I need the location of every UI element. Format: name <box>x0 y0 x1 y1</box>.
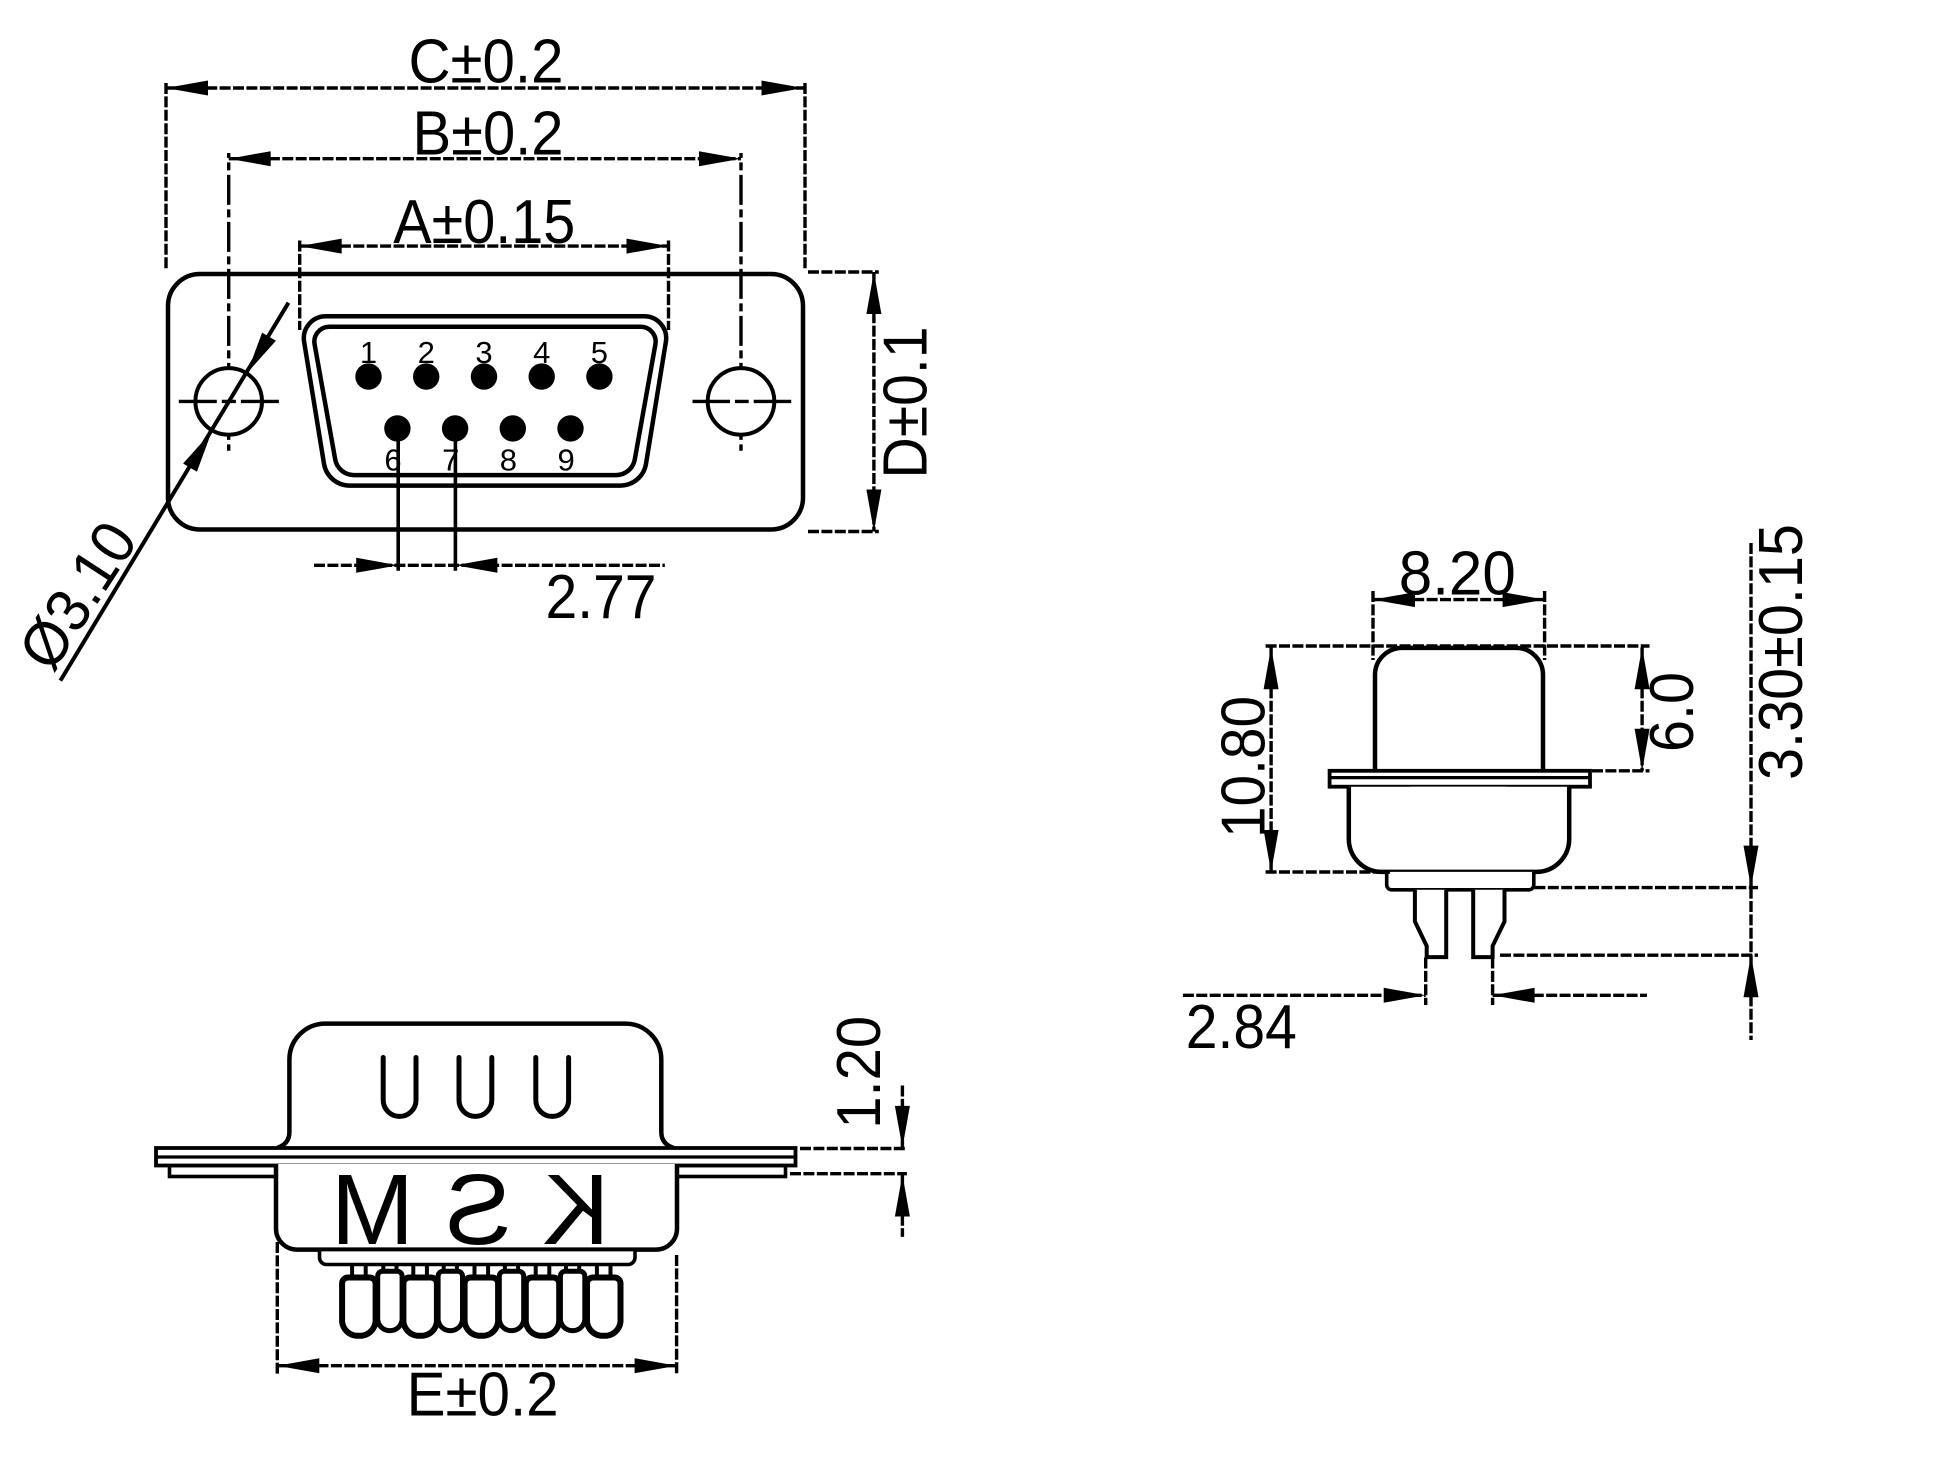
solder cup pins group <box>342 1265 620 1336</box>
left hole horizontal centerline <box>179 400 279 403</box>
pin 8 <box>500 415 526 441</box>
svg-text:4: 4 <box>533 335 550 370</box>
pin 3 <box>471 363 497 389</box>
3.30 extension line lower <box>1500 954 1758 957</box>
flange plate inner line (right view) <box>1330 776 1590 779</box>
left mounting hole centerline vertical (B extension) <box>227 153 230 451</box>
pin 6 <box>384 415 410 441</box>
svg-text:B±0.2: B±0.2 <box>413 100 564 169</box>
dimension 2.77 dimension line <box>314 558 665 573</box>
pin 7 <box>442 415 468 441</box>
right pin (right view) <box>1473 890 1504 957</box>
leader line for Ø3.10 <box>60 303 288 681</box>
right hole horizontal centerline <box>693 400 792 403</box>
svg-text:9: 9 <box>557 443 574 478</box>
wire slot U1 <box>383 1058 416 1117</box>
pin 2 <box>413 363 439 389</box>
dimension C±0.2 dimension line <box>166 81 804 96</box>
svg-text:1: 1 <box>360 335 377 370</box>
front view connector flange outline <box>168 274 803 530</box>
rear hood body with wire slots <box>277 1024 674 1148</box>
D extension line bottom <box>808 530 879 533</box>
dimension 1.20 arrows <box>895 1086 910 1237</box>
D extension line top <box>808 270 879 273</box>
D-sub shell inner contour <box>314 327 655 475</box>
dimension A±0.15 dimension line <box>300 239 669 254</box>
svg-text:C±0.2: C±0.2 <box>409 28 564 97</box>
rear solder cup pin at x=511.5 <box>503 1265 507 1274</box>
rear solder cup pin at x=450.3 <box>442 1265 446 1274</box>
right mounting hole centerline vertical (B extension) <box>739 153 742 451</box>
right mounting hole <box>708 368 775 435</box>
svg-text:3.30±0.15: 3.30±0.15 <box>1747 524 1816 780</box>
1.20 extension line lower <box>790 1172 907 1175</box>
dimension B±0.2 dimension line <box>229 151 741 166</box>
dimension 2.84 dimension line <box>1183 958 1647 1006</box>
1.20 extension line upper <box>800 1147 907 1150</box>
8.20 extension line right <box>1543 591 1546 660</box>
front solder cup pin at x=542.5 <box>534 1265 538 1281</box>
3.30 extension line upper <box>1534 886 1758 889</box>
rear solder cup pin at x=389.9 <box>381 1265 385 1274</box>
flange plate (right view) <box>1330 771 1590 787</box>
8.20 extension line left <box>1371 591 1374 660</box>
rear solder cup pin at x=572.6 <box>564 1265 568 1274</box>
svg-text:2: 2 <box>418 335 435 370</box>
front solder cup pin at x=358.9 <box>350 1265 354 1281</box>
front solder cup pin at x=481.3 <box>473 1265 477 1281</box>
top insulator body (right view) <box>1375 648 1543 771</box>
front solder cup pin at x=420.1 <box>411 1265 415 1281</box>
dimension 8.20 dimension line <box>1373 592 1545 607</box>
mounting bracket strip under plate <box>170 1166 786 1177</box>
svg-text:2.84: 2.84 <box>1186 993 1297 1062</box>
svg-text:10.80: 10.80 <box>1210 696 1279 838</box>
10.80 bottom extension line <box>1266 870 1390 873</box>
pin 6 extension line for 2.77 <box>396 430 400 571</box>
svg-text:8.20: 8.20 <box>1399 540 1516 609</box>
dimension E±0.2 dimension line <box>277 1358 676 1373</box>
svg-text:E±0.2: E±0.2 <box>407 1360 559 1429</box>
front solder cup pin at x=603.7 <box>595 1265 599 1281</box>
insert step under body <box>320 1250 636 1265</box>
svg-text:6.0: 6.0 <box>1638 672 1707 752</box>
E extension line left <box>276 1242 279 1375</box>
step under shell (right view) <box>1387 872 1534 890</box>
wire slot U2 <box>459 1058 492 1117</box>
pin 1 <box>355 363 381 389</box>
pin 5 <box>586 363 612 389</box>
pin 7 extension line for 2.77 <box>454 430 458 571</box>
wire slot U3 <box>536 1058 569 1117</box>
left pin (right view) <box>1415 890 1446 957</box>
extension line left for A <box>298 241 301 331</box>
KSM marking (mirrored) <box>300 1154 610 1266</box>
strip under flange (right view) <box>1410 787 1508 800</box>
left mounting hole <box>195 368 262 435</box>
svg-text:2.77: 2.77 <box>546 563 657 632</box>
insulator body with KSM marking <box>276 1164 677 1250</box>
pin 4 <box>529 363 555 389</box>
extension line right for C <box>803 83 806 270</box>
E extension line right <box>675 1255 678 1375</box>
dimension D±0.1 dimension line <box>866 272 881 532</box>
svg-text:5: 5 <box>591 335 608 370</box>
svg-text:3: 3 <box>475 335 492 370</box>
svg-text:D±0.1: D±0.1 <box>872 327 941 479</box>
flange plate (side view) <box>156 1148 796 1166</box>
svg-text:1.20: 1.20 <box>825 1016 894 1129</box>
common top extension line (10.80 / 6.0) <box>1266 644 1650 647</box>
dimension 10.80 dimension line <box>1264 647 1279 872</box>
extension line left for C <box>164 83 167 270</box>
extension line right for A <box>667 241 670 331</box>
dimension 6.0 dimension line <box>1635 647 1650 771</box>
svg-text:8: 8 <box>500 443 517 478</box>
dimension 3.30±0.15 dimension line <box>1744 543 1759 1040</box>
svg-text:A±0.15: A±0.15 <box>393 188 575 257</box>
D-sub shell outer contour <box>304 316 666 485</box>
flange plate inner line <box>156 1155 796 1158</box>
pin 9 <box>557 415 583 441</box>
6.0 bottom extension line <box>1592 769 1650 772</box>
lower shell (right view) <box>1349 787 1569 872</box>
